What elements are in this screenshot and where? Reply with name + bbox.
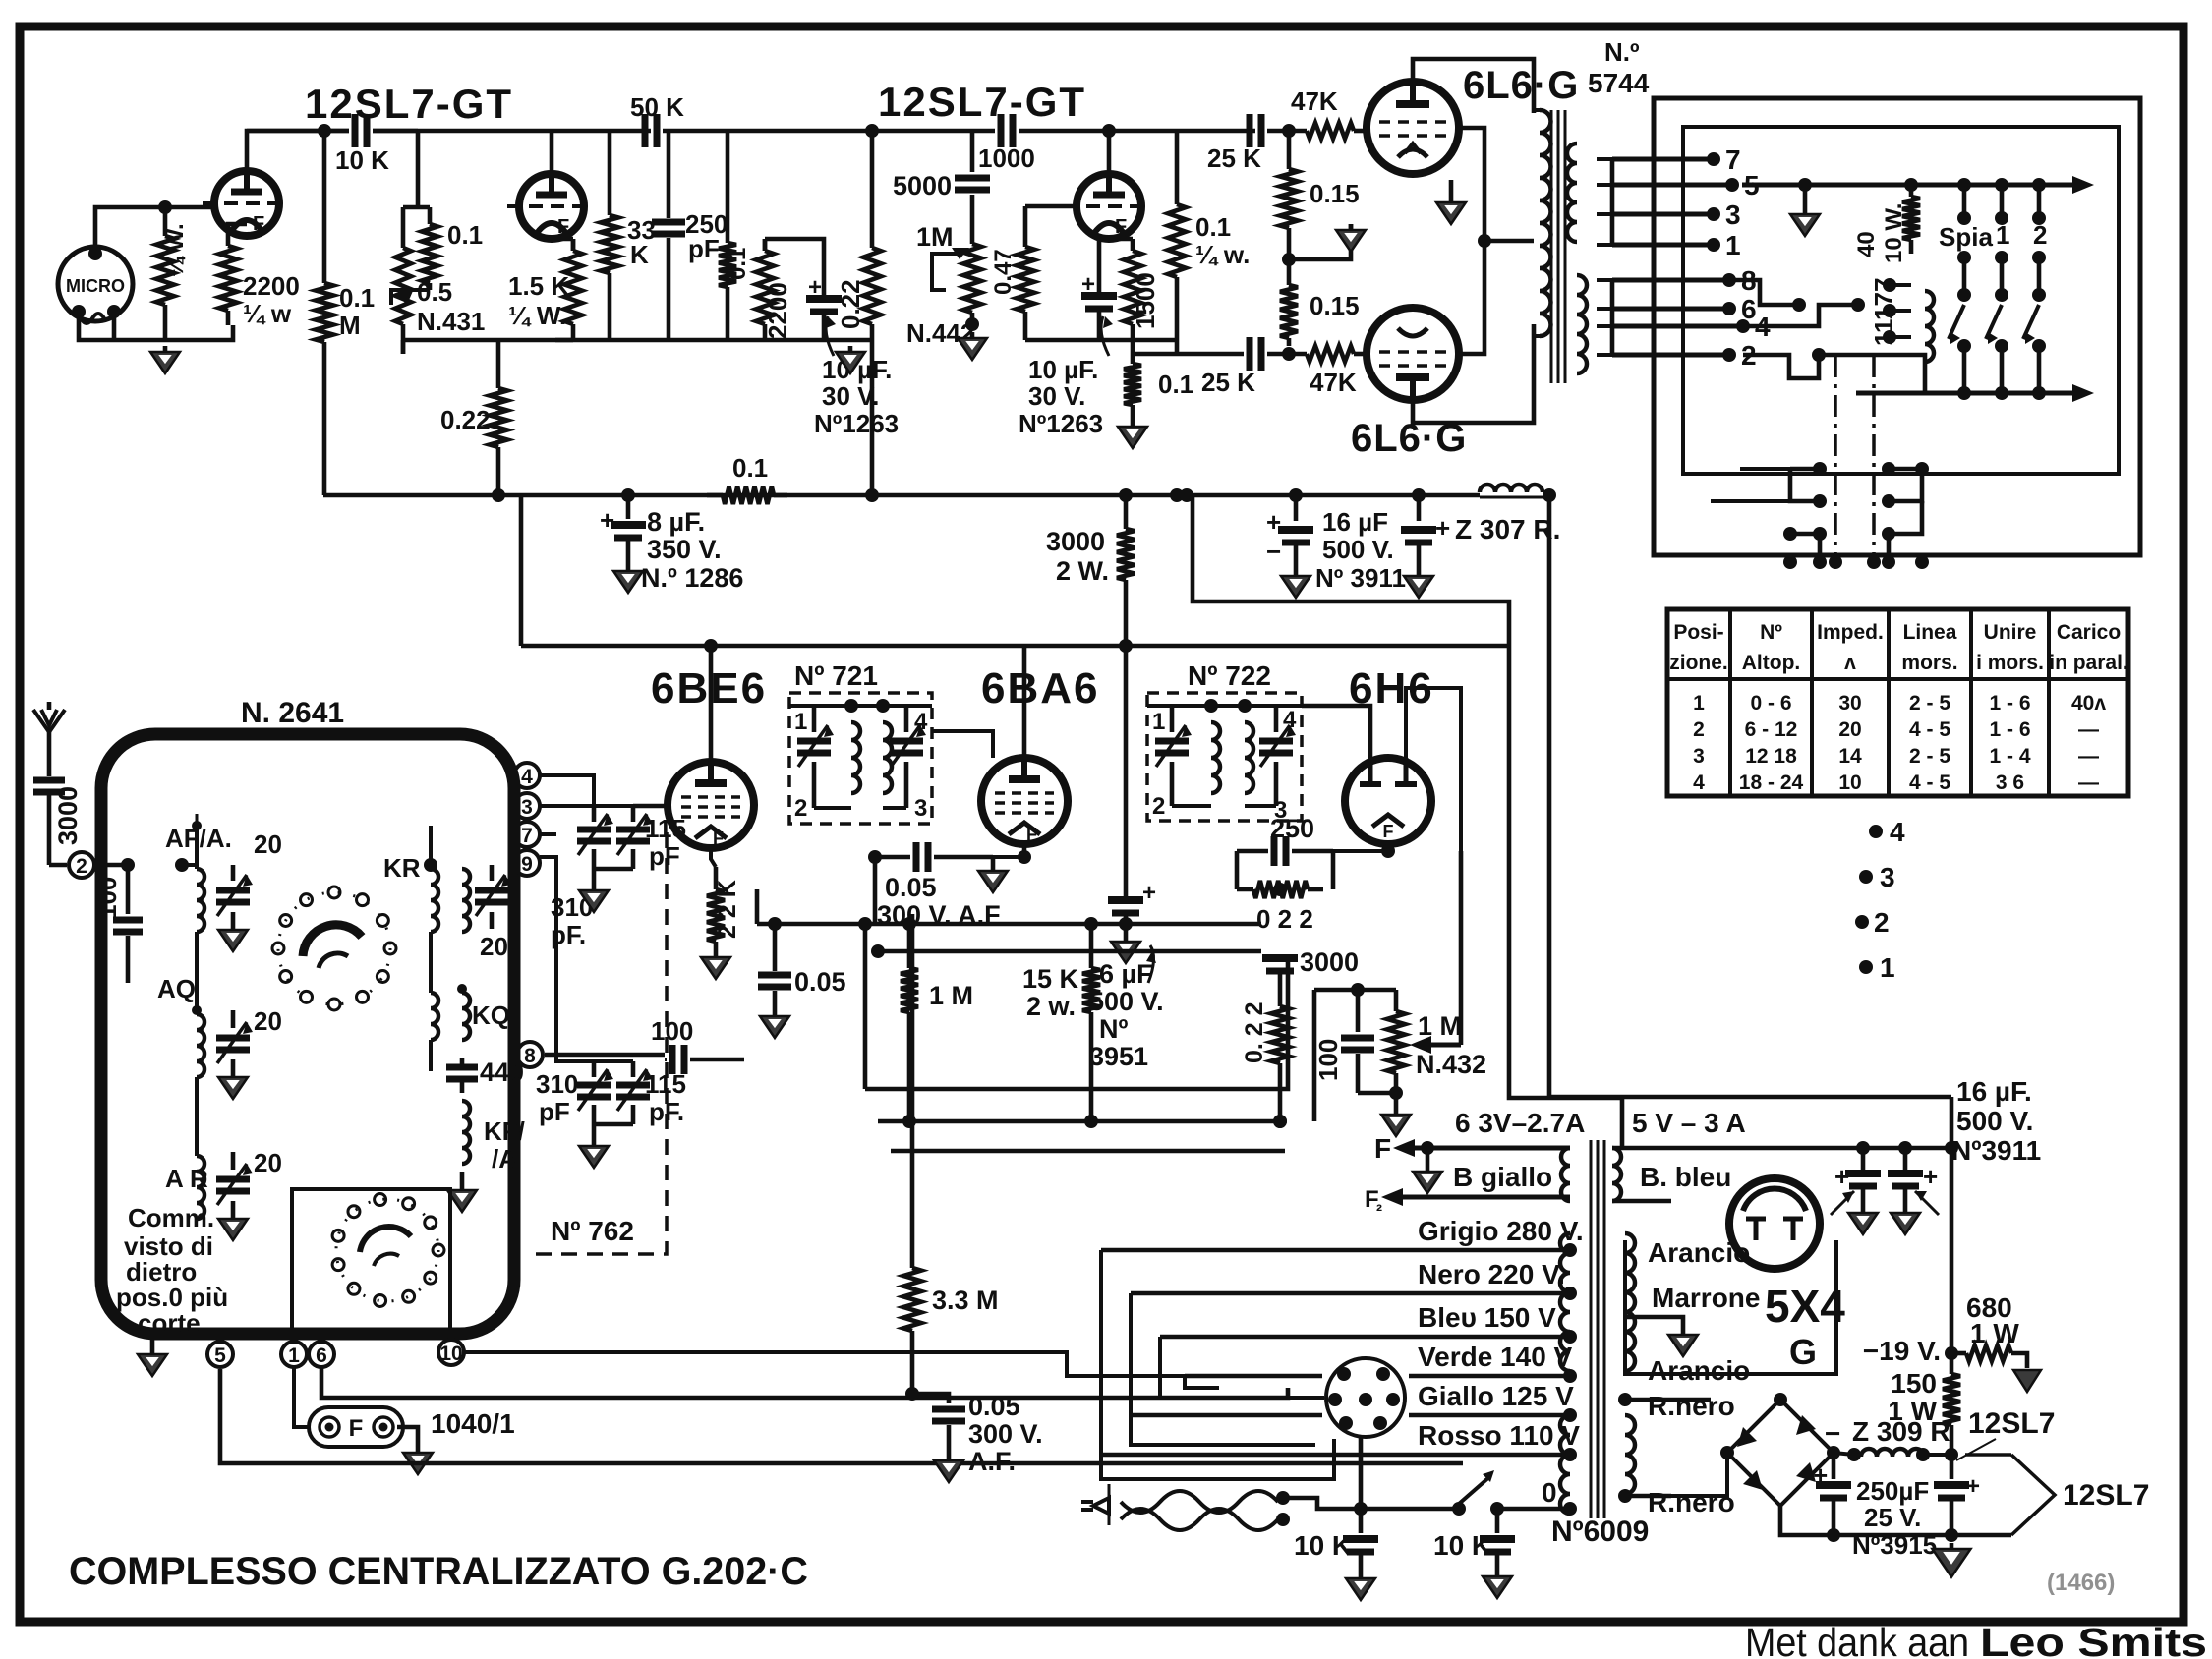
svg-text:1: 1 [1725,230,1741,260]
svg-text:500 V.: 500 V. [1322,535,1394,564]
svg-text:2 - 5: 2 - 5 [1909,745,1950,768]
node 47k lower [1282,347,1296,361]
box 5X4 [1625,1240,1836,1374]
svg-text:5 V – 3 A: 5 V – 3 A [1632,1108,1746,1138]
wire 6BE6 plate feed [704,639,718,762]
output tap 8 [1612,265,1757,296]
box 16uF [1193,495,1509,646]
label 20 a [254,829,282,859]
svg-text:2 W.: 2 W. [1056,556,1109,586]
resistor 0.15 lower [1280,259,1298,346]
svg-text:7: 7 [1725,144,1741,175]
resistor 15K 2W [1082,924,1100,1128]
ground stage2 [836,346,865,373]
wire line5 arrow [1742,176,2094,194]
svg-text:F: F [557,216,569,238]
ground stage3 [1118,421,1147,448]
label AR [165,1164,208,1193]
label 25 K top [1207,143,1261,173]
svg-text:1: 1 [1152,709,1165,735]
svg-text:250: 250 [1270,814,1314,843]
svg-text:3: 3 [1725,200,1741,230]
output tap 1 [1612,230,1741,260]
label 2200 b rot [763,282,792,339]
svg-text:3: 3 [1880,862,1895,892]
speaker selection table [1667,609,2128,796]
label No 721 [794,660,878,691]
wire out caps feed [1905,1147,1951,1149]
output transformer core [1551,110,1565,383]
separator dash-dot b [1872,356,1876,560]
wire left edge micro [94,320,96,322]
svg-text:10 K: 10 K [335,145,389,175]
wire 6BE6 top to IF721 [711,667,789,706]
svg-text:350 V.: 350 V. [647,535,722,564]
node bus 887 [865,488,879,502]
svg-text:B giallo: B giallo [1453,1162,1552,1192]
label 5X4 G [1765,1281,1845,1372]
label Z309R [1825,1416,1950,1449]
label 1M N432 [1416,1011,1486,1079]
resistor 0.22 b [490,340,507,502]
svg-text:0 2 2: 0 2 2 [1256,904,1313,934]
svg-text:Posi-: Posi- [1673,621,1723,644]
ground 10K a [1346,1573,1375,1600]
svg-text:Nº 762: Nº 762 [551,1216,634,1246]
IF722 coil left [1211,706,1220,793]
svg-text:6 - 12: 6 - 12 [1745,718,1798,741]
svg-text:Imped.: Imped. [1817,621,1884,644]
svg-text:Altop.: Altop. [1742,652,1800,674]
svg-text:−: − [1825,1418,1840,1449]
node bus 1197 [1170,488,1184,502]
svg-text:0.1: 0.1 [725,248,751,280]
svg-text:F: F [1115,216,1127,238]
resistor 0.22 mid [1271,1002,1289,1121]
label 0.47 rot [990,249,1017,295]
wire Rnero top [1618,1391,1735,1453]
mains plug [1081,1484,1109,1525]
IF721 bottom wires [814,806,906,810]
wire term1 to fuse [294,1367,309,1427]
IF721 trimmer left [797,706,834,808]
label 20 b [254,1006,282,1036]
wire pot bottom to bus [401,340,406,354]
svg-text:6: 6 [316,1344,327,1367]
resistor 1M mid [901,924,918,1121]
svg-text:20: 20 [254,1148,282,1177]
ground line5 [1790,185,1820,236]
svg-text:1: 1 [288,1344,300,1367]
svg-text:Z 307 R.: Z 307 R. [1455,514,1560,544]
switch dot AF [192,814,202,830]
wire term5 down [220,1369,1463,1463]
capacitor 0.05 300V AF [912,1394,965,1455]
label Rosso [1418,1420,1580,1451]
svg-text:6 3V–2.7A: 6 3V–2.7A [1455,1108,1585,1138]
label 115 pF lower [645,1069,686,1126]
output transformer primary coil [1534,110,1551,336]
node mid 0.15 [1282,253,1296,266]
credit Met dank aan Leo Smits [1745,1620,2207,1659]
label KR [383,853,421,883]
svg-text:N.432: N.432 [1416,1050,1486,1079]
label 25 K lower [1201,368,1255,397]
svg-text:1: 1 [1880,952,1895,983]
label 150 1W [1888,1368,1937,1426]
label 16uF 500V N3911 out [1951,1076,2041,1166]
label 20 d [480,932,508,961]
resistor 40ohm 10W [1902,185,1920,254]
svg-text:3000: 3000 [53,786,83,845]
svg-text:3.3 M: 3.3 M [932,1286,999,1315]
svg-text:0: 0 [1542,1477,1557,1508]
wire micro top to grid node [95,207,215,247]
label 6H6 [1349,664,1434,713]
label 12SL7-GT #1 [305,81,513,127]
coil KF/A [462,1101,470,1164]
tube 12SL7 V2 [1065,174,1141,239]
svg-text:8: 8 [524,1045,536,1067]
svg-text:1.5 K: 1.5 K [508,271,569,301]
svg-text:pF: pF [649,841,680,871]
label 0.5 N.431 [417,277,485,336]
svg-text:8 µF.: 8 µF. [647,507,705,537]
svg-text:1 M: 1 M [929,981,973,1010]
label 0.22 a rot [836,279,865,329]
svg-text:²: ² [1376,1201,1382,1221]
wire 5X4 plates [1625,1191,1730,1224]
label 40 10W [1853,203,1907,263]
wire avc node [1314,983,1396,997]
wire mid riser a [858,917,872,1089]
speaker box inner [1683,127,2119,474]
label 0.05 300V AF [968,1392,1043,1476]
label 22K rot [714,880,741,939]
ground 1040 [397,1427,433,1474]
coil AQ [192,1005,204,1156]
label 0.1 c [1158,370,1193,399]
wire screen taps [1459,128,1534,241]
resistor 47K top [1307,123,1368,139]
svg-text:2 2 K: 2 2 K [714,880,741,939]
label 12SL7 right b [2063,1479,2149,1512]
label B bleu [1640,1162,1731,1192]
wire 250 022 left [1237,844,1395,889]
label 3000 mid [1300,947,1359,977]
svg-text:0.15: 0.15 [1310,179,1360,208]
label N.442 [906,318,974,348]
wire mid bus 1108 [865,956,1288,1089]
label 3000 antenna rot [53,786,83,845]
svg-text:1 - 6: 1 - 6 [1989,692,2030,715]
IF transformer No722 box [1147,693,1302,821]
svg-text:12 18: 12 18 [1745,745,1797,768]
resistor 0.1 top [422,224,437,290]
svg-text:F: F [713,829,724,848]
stamp 1466 [2047,1570,2115,1596]
node 16uF a [1289,488,1303,502]
label 8uF 350V N1286 [641,507,743,593]
svg-text:10: 10 [439,1343,462,1365]
label 47K lower [1310,368,1357,397]
ground F [1413,1148,1442,1193]
IF722 pins [1152,707,1297,824]
svg-text:440: 440 [480,1058,524,1087]
capacitor 10K a [1343,1509,1378,1573]
svg-text:6 µF: 6 µF [1099,959,1153,989]
label 250 [1270,814,1314,843]
svg-text:1 - 6: 1 - 6 [1989,718,2030,741]
wire 5V to 5X4 [1701,1148,1775,1201]
tube 5X4G [1729,1178,1820,1269]
terminal circ 5 [207,1342,233,1367]
bullet 3 [1859,862,1895,892]
svg-text:12SL7-GT: 12SL7-GT [878,79,1086,125]
svg-text:+: + [1966,1473,1980,1500]
resistor 47K lower [1307,346,1368,362]
label Z307R [1435,513,1560,544]
label 250 pF [685,209,728,263]
label No6009 [1551,1516,1649,1548]
ground 8uF [613,565,643,593]
output transformer sec coil B [1577,275,1587,373]
svg-text:0.1: 0.1 [447,220,483,250]
svg-text:0.1: 0.1 [1195,212,1231,242]
svg-text:F: F [1383,822,1394,841]
terminal circ 1 [281,1342,307,1367]
wire mid bus 968 [871,924,1261,958]
twisted pair [1121,1491,1278,1530]
commutator unit rounded box N.2641 [101,734,514,1334]
node micro-grid [158,200,172,214]
bottom wire stage3 [1025,338,1177,343]
svg-text:pF: pF [539,1097,570,1126]
heater coil 5V [1612,1148,1621,1201]
svg-text:¼ W.: ¼ W. [508,301,566,330]
ground N442 [958,332,987,360]
wire 6L6 lower plate to OT [1413,324,1534,423]
svg-text:0.1: 0.1 [339,283,375,313]
wire mid bus 940 [757,889,1261,931]
svg-text:Verde 140 V: Verde 140 V [1418,1342,1573,1372]
wire marrone [1625,1317,1698,1356]
wire 25K to 47K [1267,129,1307,134]
switch 1 [1986,185,2008,393]
label 1M mid [929,981,973,1010]
resistor 33 K [601,131,618,340]
wire rail 1000 to V2 [1019,129,1255,134]
svg-text:—: — [2078,772,2099,794]
ground 16uF b [1404,570,1433,598]
IF722 trimmer right [1259,706,1296,806]
svg-text:12SL7: 12SL7 [2063,1479,2149,1512]
IF721 top wires [789,699,932,713]
svg-text:+: + [1834,1162,1849,1191]
wire 6BA6 plate feed [932,646,1147,758]
label sw2 [2033,220,2047,250]
wire sec taps A [1597,159,1612,355]
label No 722 [1188,660,1271,691]
wire 5V row [1612,1141,1951,1155]
output tap 6 [1612,294,1757,324]
wire sec verticals [1610,159,1615,355]
svg-text:K: K [630,240,649,269]
label 0.15 lower [1310,291,1360,320]
trimmer 115pF pair lower [577,1061,653,1124]
ground 22K [701,951,730,979]
ground 10K b [1483,1571,1512,1598]
tube 6L6-G lower [1367,308,1459,400]
label 0.22 mid rot [1241,1001,1268,1063]
ground mic [150,346,180,373]
label Arancio bottom [1648,1355,1750,1386]
capacitor 25K top [1250,114,1261,147]
svg-text:N.º 1286: N.º 1286 [641,563,743,593]
wire avc bottom [1358,1086,1403,1109]
wire tap brackets [1101,1250,1334,1479]
svg-text:0. 2 2: 0. 2 2 [1241,1001,1268,1063]
label 47K top [1291,86,1338,116]
wire micro bottom loop [79,312,233,340]
label Comm viewed [116,1203,228,1338]
wire mid bus 1171 [891,1121,1285,1151]
wire 6L6 upper plate to OT [1413,59,1534,113]
svg-text:Nº 3911: Nº 3911 [1315,563,1406,593]
label 20 c [254,1148,282,1177]
svg-text:¼ w.: ¼ w. [1195,240,1250,269]
svg-text:+: + [600,505,614,535]
label 10 K [335,145,389,175]
wire mid bus 1141 [878,1115,1287,1128]
wire Rnero bottom [1618,1453,1735,1517]
speaker box bottom dots [1783,534,1929,569]
label 50 K [630,92,684,122]
label 0.05 300VAF [877,873,1001,930]
svg-text:KR: KR [383,853,421,883]
bullet 4 [1869,817,1905,847]
resistor 0.1 b [719,131,736,340]
output tap 3 [1612,200,1741,230]
wire F2 arrow [1365,1186,1570,1221]
label 1.5 K 1/4W [508,271,569,330]
capacitor 10uF 30V second [1081,257,1117,340]
svg-text:Arancio: Arancio [1648,1355,1750,1386]
resistor 0.1 quarter w [1168,131,1186,340]
coil AR [197,1156,204,1219]
trimmer 20 b [216,1010,253,1071]
primary low coils [1560,1415,1570,1514]
svg-text:pF.: pF. [649,1097,684,1126]
svg-text:0.22: 0.22 [836,279,865,329]
wire rail after 50K [663,129,995,134]
tap wire Giallo [1131,1408,1577,1422]
node feeder [0,0,1,1]
label N.2641 [241,697,344,729]
node bus 1145 [1119,488,1133,502]
label 440 [480,1058,524,1087]
terminal circ 6 [309,1342,334,1367]
capacitor 5000 [955,131,990,236]
svg-text:Nero 220 V.: Nero 220 V. [1418,1259,1565,1289]
wire avc left drop [1312,990,1317,1121]
svg-text:16 µF.: 16 µF. [1956,1076,2032,1107]
svg-text:Nº: Nº [1099,1014,1128,1044]
node z309 right [1945,1448,1958,1461]
svg-text:0.05: 0.05 [968,1392,1020,1421]
capacitor 10K b [1480,1509,1515,1571]
svg-text:AQ: AQ [157,974,196,1003]
svg-text:+: + [1813,1460,1828,1490]
label 115 pF upper [633,806,686,871]
coil KQ b [457,984,470,1040]
capacitor 1000 coupling [1001,114,1013,147]
coil KR2 [462,869,470,932]
svg-text:4: 4 [1283,707,1297,733]
output tap 5 [1612,170,1760,200]
svg-text:4: 4 [1890,817,1905,847]
svg-text:5744: 5744 [1588,68,1650,98]
svg-text:20: 20 [1838,718,1861,741]
svg-text:KQ: KQ [472,1001,510,1030]
svg-text:10 W.: 10 W. [1881,203,1907,263]
label 250uF 25V N3915 [1852,1476,1937,1560]
label Verde [1418,1342,1573,1372]
resistor 022 [1237,881,1323,934]
svg-text:250µF: 250µF [1856,1476,1929,1506]
ground 0.05 AF [934,1455,963,1482]
label 1500 rot [1131,272,1160,329]
svg-text:1: 1 [794,709,807,735]
label 11177 [1869,278,1898,346]
capacitor 3000 antenna [33,780,65,865]
wire term6 down [321,1367,1288,1398]
coil 11177 [1919,285,1934,362]
wire mid riser c [890,971,892,1151]
ground trimmer upper [579,869,609,912]
capacitor 16uF 500V b [1401,495,1436,570]
wire screen lower [1459,241,1484,354]
svg-text:4: 4 [914,709,928,735]
label 1040/1 [431,1408,515,1439]
label 0.1 a [447,220,483,250]
svg-text:1000: 1000 [978,143,1035,173]
wire thin 12SL7 link [1956,1439,1996,1460]
brace 12SL7 [1951,1455,2055,1535]
ground 20b [218,1071,248,1099]
IF721 trimmer right [890,706,926,808]
svg-text:+: + [1435,513,1450,543]
resistor 0.47 grid [1017,206,1034,340]
wire feeder x1535 [1509,646,1622,1148]
svg-text:Spia: Spia [1939,222,1993,252]
terminal circ 4 [514,763,594,806]
label 3000 2W [1046,527,1109,586]
svg-text:7: 7 [521,825,533,847]
svg-text:25 K: 25 K [1207,143,1261,173]
svg-text:3: 3 [914,795,927,822]
label 680 1W [1966,1292,2019,1348]
node 47k in [1282,124,1296,138]
svg-text:Leo Smits: Leo Smits [1980,1620,2207,1659]
svg-text:A R: A R [165,1164,208,1193]
ground 20a [218,924,248,951]
wire cath bottom V1b [552,239,824,256]
tube 6BA6 [981,758,1068,864]
svg-text:12SL7-GT: 12SL7-GT [305,81,513,127]
svg-text:2: 2 [1874,907,1890,938]
svg-text:Carico: Carico [2057,621,2121,644]
